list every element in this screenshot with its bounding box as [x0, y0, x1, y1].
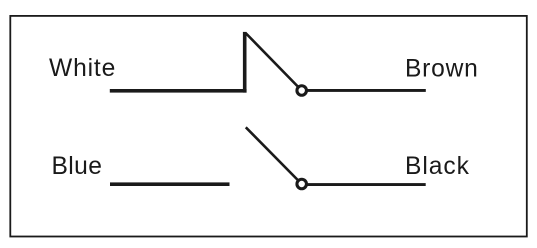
wire riser (top switch vertical) — [243, 32, 247, 93]
wire White lead — [110, 89, 247, 93]
svg-text:White: White — [49, 55, 116, 82]
switch blade bottom (SPDT pole 2, open) — [246, 127, 302, 184]
wire Blue lead — [110, 182, 230, 186]
svg-text:Blue: Blue — [52, 153, 103, 180]
wire Brown lead — [304, 89, 426, 92]
switch contact bottom (open circle terminal) — [297, 179, 307, 189]
switch contact top (open circle terminal) — [297, 86, 307, 96]
wire Black lead — [304, 183, 426, 186]
svg-text:Brown: Brown — [405, 56, 479, 83]
switch blade top (SPDT pole 1) — [246, 33, 302, 91]
svg-text:Black: Black — [405, 153, 470, 180]
